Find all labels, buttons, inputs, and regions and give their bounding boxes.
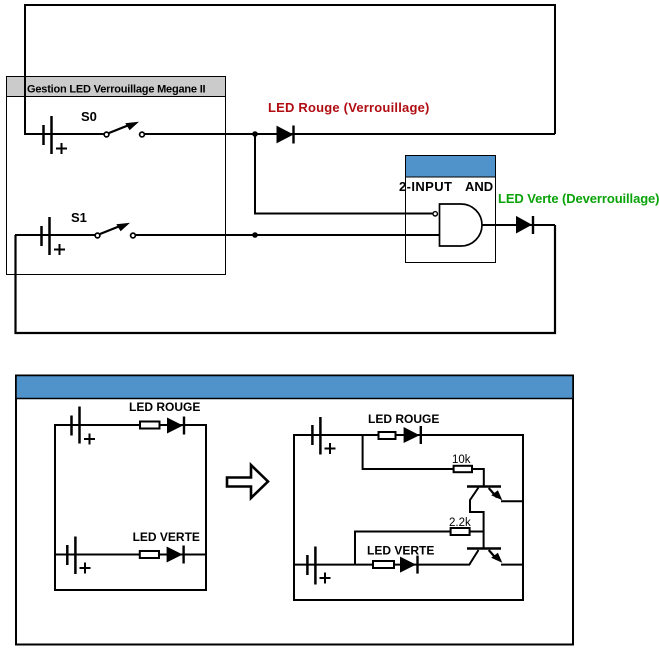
wire: switch S0 to junction (144, 133, 255, 135)
svg-text:S1: S1 (71, 210, 87, 225)
svg-text:10k: 10k (452, 454, 471, 466)
svg-text:LED VERTE: LED VERTE (367, 544, 434, 558)
battery B1 (S0 branch) (44, 116, 68, 154)
wire: S1 return path (left drop, bottom run, right rise) (16, 225, 556, 333)
resistor R3 (right circuit top) (379, 432, 396, 439)
wire: S1 branch horizontal (battery to switch) (15, 234, 96, 236)
node: junction on S0 wire (252, 131, 258, 137)
svg-text:LED ROUGE: LED ROUGE (368, 412, 439, 426)
frame: bottom panel header (16, 376, 573, 399)
wire: 2.2k to Q2 base junction (470, 531, 484, 533)
pin: U1 inverted input bubble (433, 212, 437, 216)
wire: LED rouge output to right side (255, 133, 555, 135)
frame: AND gate box (406, 156, 496, 263)
resistor R6 (right circuit bottom) (373, 561, 394, 568)
battery B6 (right circuit bottom) (307, 547, 330, 585)
svg-text:Gestion LED Verrouillage Megan: Gestion LED Verrouillage Megane II (27, 84, 206, 96)
svg-text:LED Verte (Deverrouillage): LED Verte (Deverrouillage) (498, 191, 659, 206)
wire: 2.2k branch from bottom wire (355, 532, 450, 565)
wire: outer loop top (battery S0 / LED rouge return path) (25, 5, 555, 135)
resistor R4 10k (454, 466, 472, 472)
symbol: big block arrow (227, 465, 268, 498)
LED D3 (left rouge) (167, 417, 184, 435)
wire: switch S1 to AND input 2 (135, 234, 442, 236)
frame: bottom panel box (16, 376, 573, 645)
switch S1 (95, 223, 135, 238)
LED D6 (right verte) (400, 556, 418, 574)
AND gate U1 body (440, 204, 483, 246)
wire: right circuit LED verte run (294, 564, 470, 566)
LED D5 (right rouge) (404, 426, 421, 444)
battery B3 (left circuit top) (72, 407, 96, 445)
wire: 10k to Q1 base (472, 469, 484, 486)
wire: right circuit outline (294, 435, 523, 600)
LED D4 (left verte) (167, 546, 184, 564)
frame: Gestion box body (7, 77, 226, 275)
LED D1 (rouge) (277, 126, 294, 144)
battery B4 (left circuit bottom) (67, 537, 90, 575)
wire: Q1 collector junction down to Q2 base (483, 532, 485, 549)
wire: junction down to AND input 1 (255, 134, 433, 214)
svg-text:AND: AND (465, 179, 493, 194)
node: junction on S1 wire (252, 232, 258, 238)
svg-text:S0: S0 (81, 109, 97, 124)
battery B2 (S1 branch) (42, 217, 66, 255)
wire: left circuit middle (LED verte) (55, 554, 206, 556)
transistor Q1 (467, 487, 523, 532)
frame: AND gate box header (406, 156, 496, 178)
switch S0 (104, 122, 144, 137)
svg-text:2.2k: 2.2k (449, 517, 471, 529)
wire: S0 branch horizontal (battery to switch) (25, 133, 105, 135)
frame: Gestion box title bar (7, 77, 226, 97)
resistor R1 (left circuit top) (140, 422, 160, 429)
svg-text:2-INPUT: 2-INPUT (399, 179, 452, 194)
battery B5 (right circuit top) (312, 417, 335, 455)
resistor R5 2.2k (451, 528, 470, 535)
svg-text:LED VERTE: LED VERTE (133, 530, 200, 544)
wire: left circuit loop (55, 425, 206, 590)
resistor R2 (left circuit bottom) (140, 551, 159, 558)
svg-text:LED ROUGE: LED ROUGE (129, 400, 200, 414)
transistor Q2 (467, 549, 523, 565)
LED D2 (verte) (517, 216, 534, 234)
wire: AND output to LED verte (482, 224, 555, 226)
wire: base branch from top wire to 10k (363, 435, 454, 469)
svg-text:LED Rouge (Verrouillage): LED Rouge (Verrouillage) (268, 100, 430, 115)
